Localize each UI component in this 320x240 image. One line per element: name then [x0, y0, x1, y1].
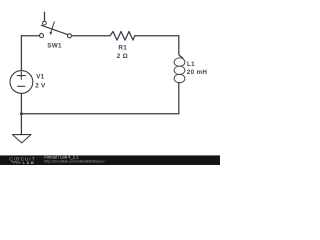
- switch SW1 right terminal circle: [68, 34, 72, 38]
- junction dot at V1/ground node: [20, 112, 23, 115]
- V1 minus sign: [18, 85, 25, 87]
- voltage source V1 circle: [10, 71, 33, 94]
- footer black bar: [0, 155, 220, 165]
- switch SW1 blade: [41, 25, 68, 34]
- CircuitLab logo resistor zigzag: [11, 161, 21, 163]
- ground stub: [20, 114, 22, 135]
- svg-text:R1: R1: [118, 45, 127, 52]
- wire right vertical top (corner to L1): [179, 36, 183, 58]
- svg-text:20 mH: 20 mH: [187, 69, 208, 76]
- switch SW1 arrow head: [49, 32, 52, 35]
- switch SW1 pivot circle: [43, 21, 47, 25]
- svg-text:L1: L1: [187, 61, 195, 68]
- resistor R1 zigzag body: [110, 32, 135, 41]
- svg-text:http://circuitlab.com/c8wd85e5: http://circuitlab.com/c8wd85e5uaurv: [44, 160, 105, 164]
- wire R1 right to top-right corner: [135, 35, 179, 37]
- inductor L1 coil loop 2: [174, 66, 185, 75]
- inductor L1 coil loop 1: [174, 58, 185, 67]
- svg-text:2 V: 2 V: [35, 82, 46, 89]
- switch SW1 actuator stub: [44, 12, 46, 21]
- wire V1 bottom to junction: [20, 93, 22, 113]
- wire top-left segment (corner to switch left terminal): [21, 35, 39, 37]
- wire switch right terminal to R1: [72, 35, 111, 37]
- wire bottom rail: [21, 113, 178, 115]
- V1 plus sign: [17, 72, 25, 79]
- ground triangle: [13, 135, 32, 143]
- wire right vertical bottom (L1 to bottom rail): [178, 83, 180, 114]
- svg-text:2 Ω: 2 Ω: [117, 53, 128, 60]
- svg-text:V1: V1: [36, 73, 44, 80]
- wire left vertical (corner down to V1 top): [20, 36, 22, 71]
- switch SW1 actuation arrow shaft: [51, 22, 54, 32]
- switch SW1 left terminal circle: [40, 34, 44, 38]
- svg-text:SW1: SW1: [47, 43, 62, 50]
- inductor L1 coil loop 3: [174, 74, 185, 83]
- svg-text:LAB: LAB: [23, 160, 36, 165]
